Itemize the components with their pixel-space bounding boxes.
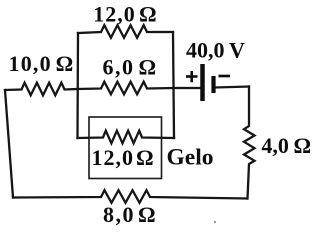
svg-text:Gelo: Gelo xyxy=(167,145,214,171)
svg-text:4,0: 4,0 xyxy=(261,133,289,158)
svg-text:10,0: 10,0 xyxy=(9,51,52,76)
svg-text:40,0: 40,0 xyxy=(186,38,225,63)
svg-text:Ω: Ω xyxy=(294,133,312,158)
svg-text:Ω: Ω xyxy=(139,2,157,27)
svg-text:8,0: 8,0 xyxy=(103,202,135,227)
svg-text:Ω: Ω xyxy=(136,145,154,170)
svg-text:V: V xyxy=(229,38,245,63)
svg-text:Ω: Ω xyxy=(138,202,156,227)
svg-text:Ω: Ω xyxy=(139,55,157,80)
svg-text:6,0: 6,0 xyxy=(103,55,135,80)
svg-text:12,0: 12,0 xyxy=(92,145,135,170)
svg-text:12,0: 12,0 xyxy=(93,2,136,27)
svg-text:Ω: Ω xyxy=(56,51,74,76)
